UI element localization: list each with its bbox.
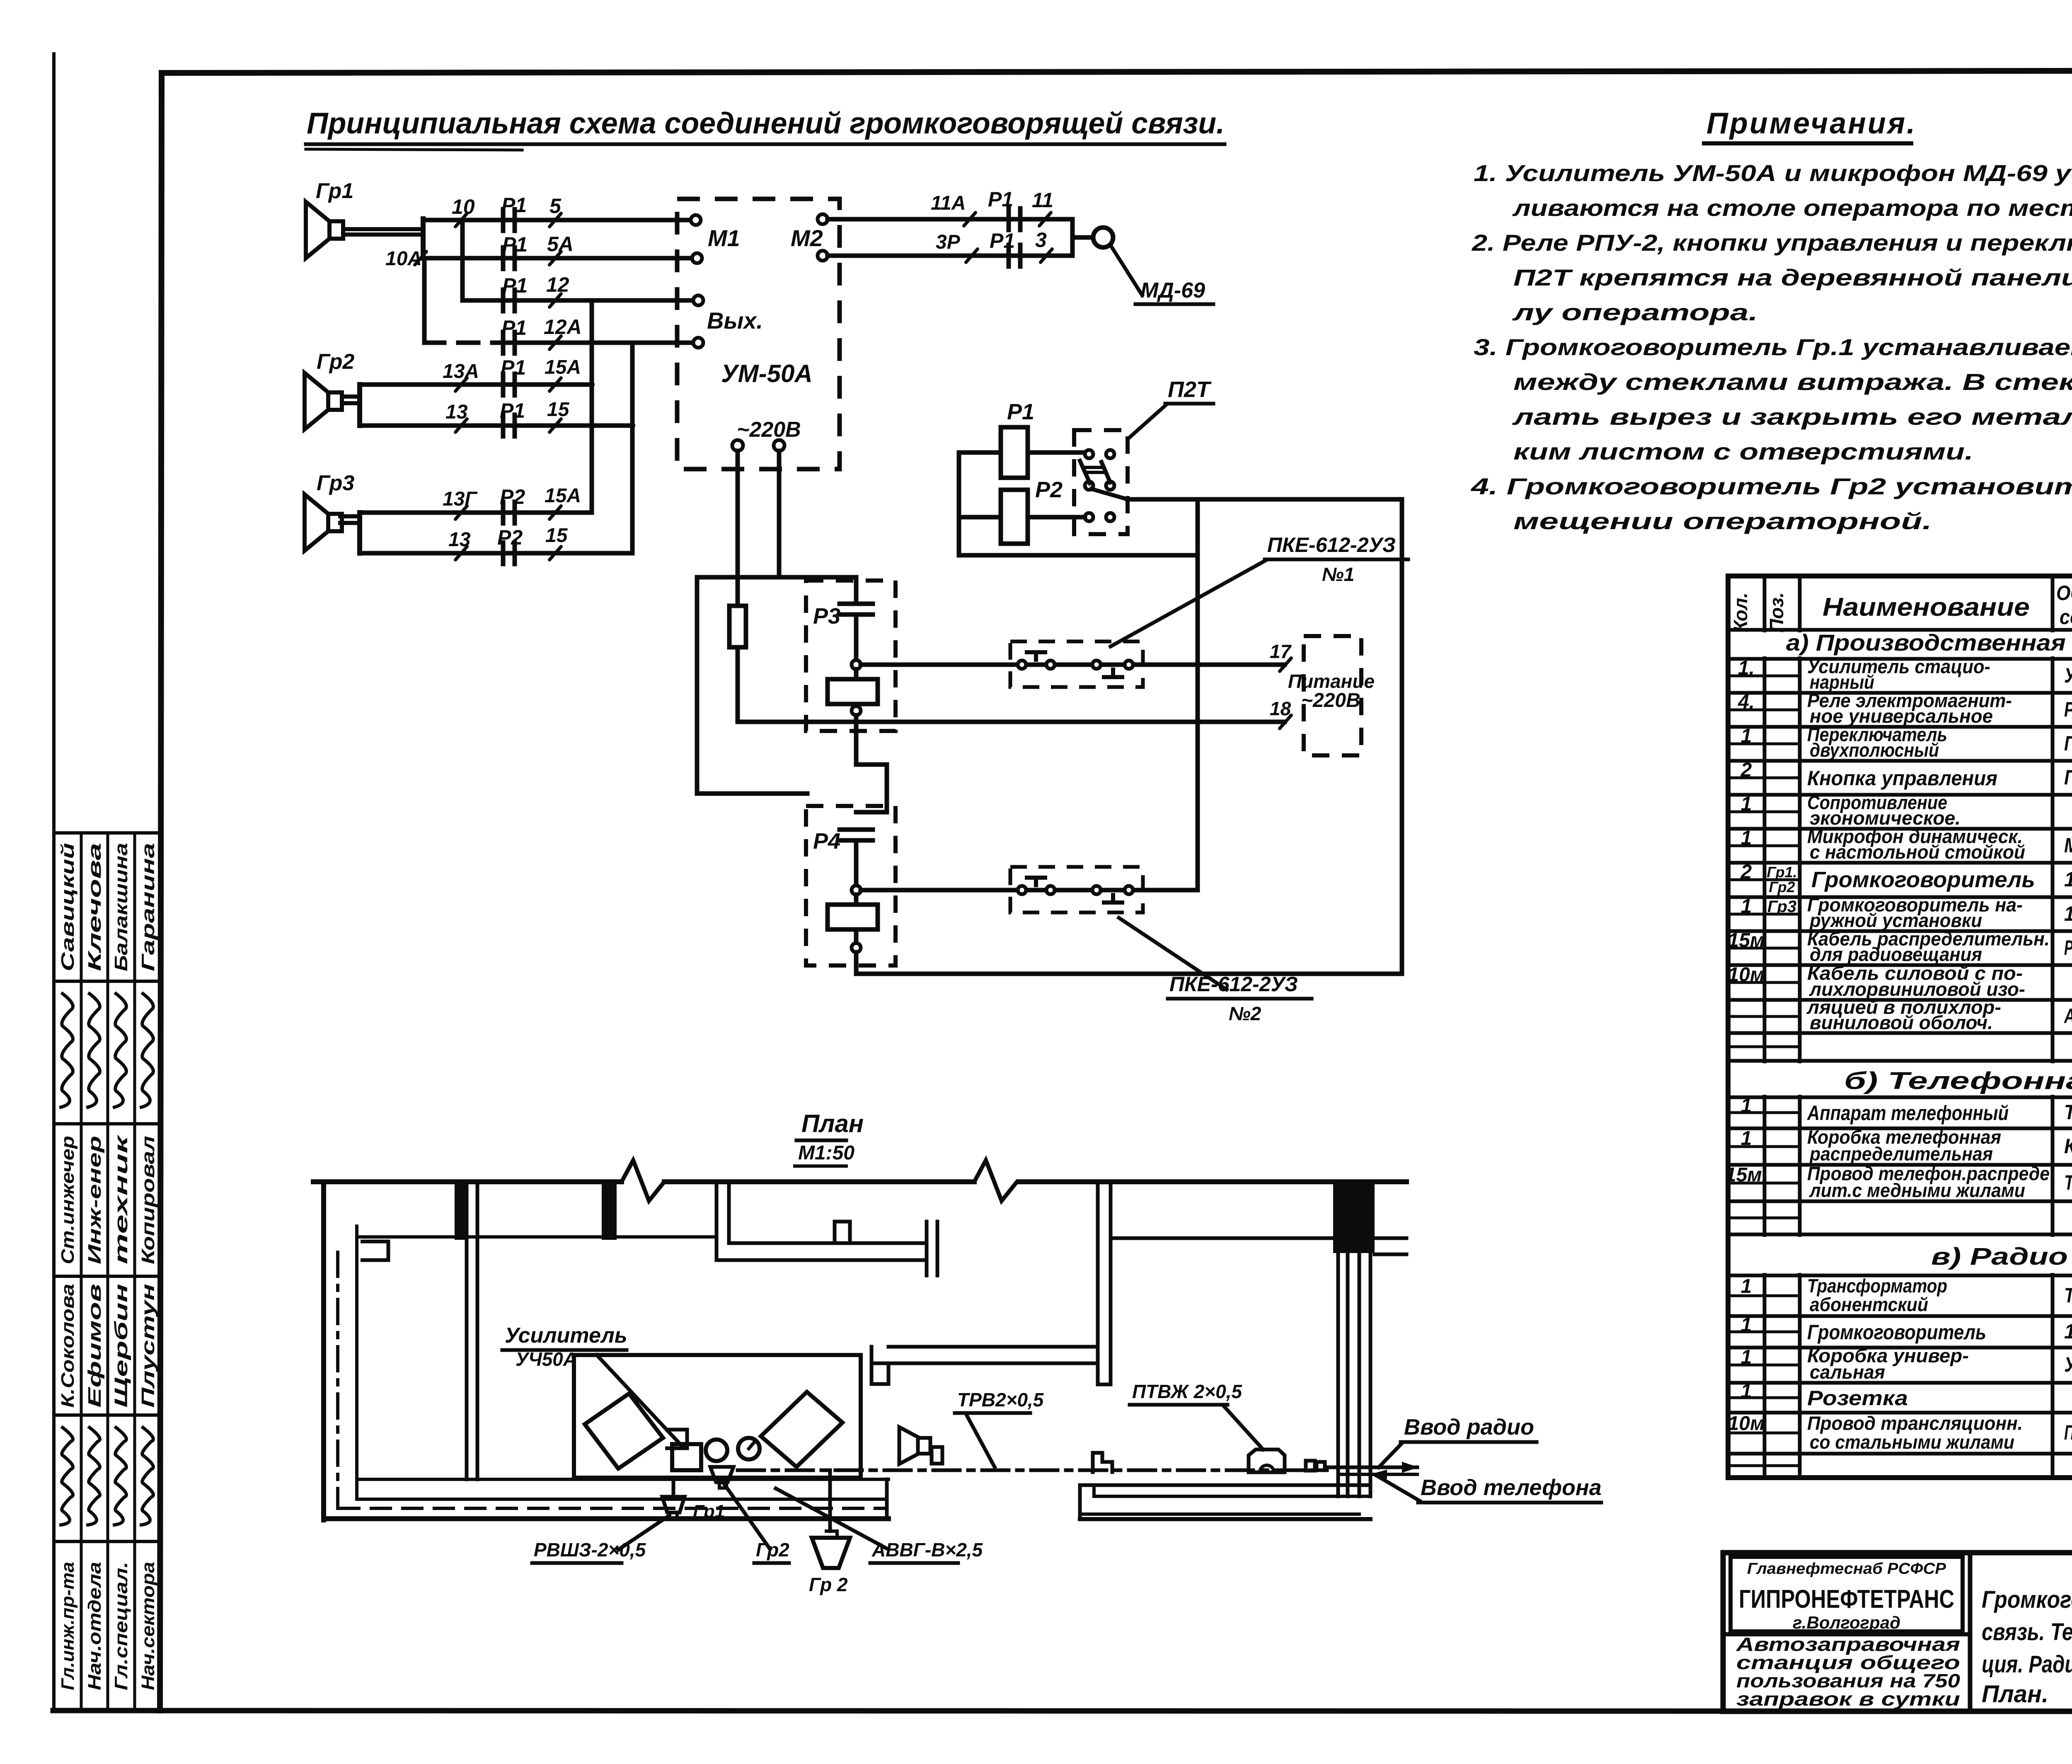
svg-text:сортамент: сортамент xyxy=(2060,605,2072,629)
svg-text:РПУ-2-66-2223: РПУ-2-66-2223 xyxy=(2064,698,2072,721)
svg-text:Нач.сектора: Нач.сектора xyxy=(138,1562,158,1690)
svg-text:Гр3: Гр3 xyxy=(317,471,354,495)
svg-text:лу оператора.: лу оператора. xyxy=(1512,299,1758,325)
svg-text:Громкоговоритель: Громкоговоритель xyxy=(1807,1321,1986,1344)
svg-text:ТАН-70: ТАН-70 xyxy=(2064,1101,2072,1124)
svg-text:13: 13 xyxy=(448,529,471,551)
svg-text:Ввод телефона: Ввод телефона xyxy=(1421,1475,1602,1500)
svg-text:13: 13 xyxy=(445,401,468,423)
svg-text:КР-10×2: КР-10×2 xyxy=(2064,1135,2072,1158)
svg-text:техник: техник xyxy=(111,1134,131,1264)
svg-text:Клечова: Клечова xyxy=(85,843,105,971)
svg-text:2: 2 xyxy=(1740,759,1752,781)
svg-text:Кнопка управления: Кнопка управления xyxy=(1807,767,1997,790)
svg-text:12: 12 xyxy=(546,273,569,296)
svg-text:Питание: Питание xyxy=(1288,670,1375,692)
svg-text:К.Соколова: К.Соколова xyxy=(58,1284,78,1408)
svg-text:Поз.: Поз. xyxy=(1766,592,1787,632)
svg-text:ПТВЖ: ПТВЖ xyxy=(2064,1421,2072,1444)
svg-text:4.: 4. xyxy=(1738,691,1755,713)
svg-text:П2Т крепятся на деревянной пан: П2Т крепятся на деревянной панели к сто- xyxy=(1513,264,2072,290)
svg-text:ТРВ: ТРВ xyxy=(2064,1171,2072,1194)
svg-text:Гл.инж.пр-та: Гл.инж.пр-та xyxy=(58,1562,78,1690)
svg-text:П2Т: П2Т xyxy=(1168,377,1212,402)
svg-text:13А: 13А xyxy=(443,361,479,382)
svg-text:Гр1: Гр1 xyxy=(316,179,353,203)
svg-text:2. Реле РПУ-2, кнопки управлен: 2. Реле РПУ-2, кнопки управления и перек… xyxy=(1472,230,2072,256)
svg-text:Гр 2: Гр 2 xyxy=(809,1574,848,1595)
svg-text:ПТВЖ 2×0,5: ПТВЖ 2×0,5 xyxy=(1132,1381,1243,1402)
svg-text:УМ-50А: УМ-50А xyxy=(721,360,813,387)
svg-text:1.: 1. xyxy=(1738,657,1755,679)
svg-text:ГИПРОНЕФТЕТРАНС: ГИПРОНЕФТЕТРАНС xyxy=(1739,1585,1954,1614)
svg-text:Гр2: Гр2 xyxy=(1769,878,1795,895)
svg-text:15м.: 15м. xyxy=(1725,1164,1767,1186)
svg-text:с настольной стойкой: с настольной стойкой xyxy=(1810,841,2025,863)
svg-text:15м: 15м xyxy=(1728,929,1765,951)
svg-text:Р1: Р1 xyxy=(500,399,525,422)
svg-text:М1:50: М1:50 xyxy=(798,1142,854,1164)
svg-text:УМ-50А: УМ-50А xyxy=(2064,664,2072,687)
svg-text:ким листом с отверстиями.: ким листом с отверстиями. xyxy=(1513,438,1973,465)
svg-text:со стальными жилами: со стальными жилами xyxy=(1810,1431,2014,1453)
svg-text:4. Громкоговоритель Гр2 устано: 4. Громкоговоритель Гр2 установить в по- xyxy=(1471,473,2072,499)
svg-text:Гр1: Гр1 xyxy=(693,1501,725,1522)
svg-text:1ГД-0,5: 1ГД-0,5 xyxy=(2064,868,2072,891)
svg-text:Усилитель: Усилитель xyxy=(505,1324,627,1348)
svg-text:Р1: Р1 xyxy=(501,356,526,379)
svg-text:М2: М2 xyxy=(791,225,823,251)
svg-text:Р1: Р1 xyxy=(988,188,1013,211)
svg-text:Р2: Р2 xyxy=(497,526,523,549)
svg-text:Р1: Р1 xyxy=(1007,399,1034,424)
svg-text:10ГРД-5: 10ГРД-5 xyxy=(2064,902,2072,925)
svg-text:ливаются на столе оператора по: ливаются на столе оператора по месту. xyxy=(1512,195,2072,221)
svg-text:РВШЭ: РВШЭ xyxy=(2064,936,2072,959)
svg-text:Р1: Р1 xyxy=(502,233,528,256)
svg-text:АВВГ: АВВГ xyxy=(2064,1004,2072,1028)
svg-text:Громкоговоритель: Громкоговоритель xyxy=(1811,867,2035,892)
svg-text:распределительная: распределительная xyxy=(1809,1143,1993,1164)
svg-text:12А: 12А xyxy=(544,315,582,339)
svg-text:10А: 10А xyxy=(385,248,422,270)
svg-text:Копировал: Копировал xyxy=(138,1136,158,1264)
svg-text:ПКЕ-612-2УЗ: ПКЕ-612-2УЗ xyxy=(1267,533,1396,557)
svg-text:1. Усилитель УМ-50А и микрофон: 1. Усилитель УМ-50А и микрофон МД-69 уст… xyxy=(1474,160,2072,186)
svg-text:Р1: Р1 xyxy=(501,194,527,217)
svg-text:1: 1 xyxy=(1741,1095,1752,1117)
svg-text:1: 1 xyxy=(1741,1128,1752,1149)
svg-text:1: 1 xyxy=(1741,1314,1752,1336)
svg-text:~220В: ~220В xyxy=(737,418,801,442)
svg-text:УЧ50А: УЧ50А xyxy=(516,1348,577,1370)
svg-text:ТРВ2×0,5: ТРВ2×0,5 xyxy=(957,1389,1044,1411)
svg-text:15: 15 xyxy=(545,525,568,547)
svg-text:1: 1 xyxy=(1741,725,1752,747)
svg-text:Савицкий: Савицкий xyxy=(58,843,78,971)
svg-text:1ГД-0,5: 1ГД-0,5 xyxy=(2064,1320,2072,1343)
svg-text:ПКЕ 612-2УЗ: ПКЕ 612-2УЗ xyxy=(2064,766,2072,789)
svg-text:3. Громкоговоритель Гр.1 устан: 3. Громкоговоритель Гр.1 устанавливается xyxy=(1474,334,2072,360)
svg-text:Р2: Р2 xyxy=(500,485,525,508)
svg-text:План.: План. xyxy=(1982,1681,2048,1708)
svg-text:Р4: Р4 xyxy=(813,829,840,854)
svg-text:Гр3: Гр3 xyxy=(1767,898,1796,916)
svg-text:5: 5 xyxy=(549,194,562,218)
svg-text:1: 1 xyxy=(1741,1346,1752,1368)
svg-text:МД-69: МД-69 xyxy=(1140,278,1205,302)
svg-text:ПКЕ-612-2УЗ: ПКЕ-612-2УЗ xyxy=(1169,973,1298,996)
svg-text:УК-2П: УК-2П xyxy=(2064,1353,2072,1376)
svg-text:Принципиальная схема соедине: Принципиальная схема соединений громкого… xyxy=(307,107,1225,140)
svg-text:связь. Телефониза-: связь. Телефониза- xyxy=(1982,1619,2072,1645)
svg-text:Балакшина: Балакшина xyxy=(111,843,131,971)
svg-text:Аппарат телефонный: Аппарат телефонный xyxy=(1806,1101,2009,1125)
svg-text:б) Телефонная связь: б) Телефонная связь xyxy=(1844,1067,2072,1094)
svg-text:10м: 10м xyxy=(1728,1413,1765,1435)
svg-text:10м: 10м xyxy=(1728,964,1765,986)
svg-text:Нач.отдела: Нач.отдела xyxy=(85,1562,105,1690)
svg-text:виниловой оболоч.: виниловой оболоч. xyxy=(1810,1011,1993,1033)
svg-text:заправок в сутки: заправок в сутки xyxy=(1736,1688,1960,1710)
svg-text:Инж-енер: Инж-енер xyxy=(85,1136,105,1264)
svg-text:Провод трансляционн.: Провод трансляционн. xyxy=(1807,1413,2023,1434)
svg-text:Ввод радио: Ввод радио xyxy=(1404,1415,1534,1440)
svg-text:Вых.: Вых. xyxy=(707,307,763,334)
svg-text:15А: 15А xyxy=(545,356,581,378)
svg-text:Примечания.: Примечания. xyxy=(1706,107,1917,140)
svg-text:10: 10 xyxy=(452,195,475,218)
svg-text:Обозначение: Обозначение xyxy=(2056,581,2072,605)
svg-text:Кол.: Кол. xyxy=(1730,593,1751,632)
svg-text:15: 15 xyxy=(547,399,570,421)
svg-text:г.Волгоград: г.Волгоград xyxy=(1793,1613,1900,1632)
svg-text:абонентский: абонентский xyxy=(1810,1294,1928,1315)
svg-text:11: 11 xyxy=(1032,189,1053,212)
svg-text:Р1: Р1 xyxy=(502,274,528,297)
svg-text:а) Производственная громкогово: а) Производственная громкоговорящая связ… xyxy=(1786,629,2072,656)
svg-text:двухполюсный: двухполюсный xyxy=(1810,739,1939,761)
svg-text:П2Т: П2Т xyxy=(2064,732,2072,755)
svg-text:Плустун: Плустун xyxy=(138,1284,158,1408)
svg-text:Р1: Р1 xyxy=(501,316,527,339)
svg-text:в) Радио: в) Радио xyxy=(1931,1243,2068,1270)
svg-text:№2: №2 xyxy=(1229,1003,1261,1024)
svg-text:План: План xyxy=(801,1110,864,1137)
svg-text:1: 1 xyxy=(1741,1275,1752,1297)
svg-text:Наименование: Наименование xyxy=(1823,593,2030,622)
svg-text:мещении операторной.: мещении операторной. xyxy=(1513,508,1932,534)
svg-text:МД-69: МД-69 xyxy=(2064,834,2072,857)
svg-text:Громкоговорящия: Громкоговорящия xyxy=(1982,1586,2072,1613)
svg-text:Р2: Р2 xyxy=(1035,477,1063,502)
svg-text:Розетка: Розетка xyxy=(1807,1387,1908,1410)
svg-text:М1: М1 xyxy=(708,225,740,251)
svg-text:№1: №1 xyxy=(1322,564,1354,585)
svg-text:Гаранина: Гаранина xyxy=(138,843,158,971)
svg-text:лать вырез и закрыть его м: лать вырез и закрыть его металличес- xyxy=(1512,404,2072,430)
svg-text:Главнефтеснаб РСФСР: Главнефтеснаб РСФСР xyxy=(1747,1560,1946,1578)
svg-text:Р3: Р3 xyxy=(813,604,840,629)
svg-text:Ефимов: Ефимов xyxy=(85,1284,105,1408)
svg-text:Ст.инжечер: Ст.инжечер xyxy=(58,1136,78,1264)
svg-text:~220В: ~220В xyxy=(1301,690,1360,711)
svg-text:2: 2 xyxy=(1740,861,1752,883)
svg-text:11А: 11А xyxy=(931,192,966,214)
svg-text:ция. Радиофикация.: ция. Радиофикация. xyxy=(1982,1651,2072,1678)
svg-text:1: 1 xyxy=(1741,793,1752,815)
svg-text:3Р: 3Р xyxy=(936,231,961,253)
svg-text:1: 1 xyxy=(1741,827,1752,849)
svg-text:ТАУ-5СМ: ТАУ-5СМ xyxy=(2064,1284,2072,1307)
svg-text:Р1: Р1 xyxy=(990,229,1015,252)
svg-text:лит.с медными жилами: лит.с медными жилами xyxy=(1809,1179,2025,1201)
svg-text:1: 1 xyxy=(1741,1380,1752,1402)
svg-text:между стеклами витража. В с: между стеклами витража. В стекле сде- xyxy=(1513,369,2072,395)
svg-text:3: 3 xyxy=(1035,228,1047,252)
svg-text:Щербин: Щербин xyxy=(111,1284,131,1408)
svg-text:1: 1 xyxy=(1741,895,1752,917)
svg-text:АВВГ-В×2,5: АВВГ-В×2,5 xyxy=(871,1539,983,1561)
svg-text:15А: 15А xyxy=(545,485,581,507)
svg-text:Гр2: Гр2 xyxy=(317,350,354,374)
svg-text:Гр2: Гр2 xyxy=(756,1539,789,1561)
svg-text:сальная: сальная xyxy=(1810,1361,1885,1383)
svg-text:18: 18 xyxy=(1270,698,1291,719)
svg-text:5А: 5А xyxy=(547,232,574,256)
svg-text:13Г: 13Г xyxy=(443,488,478,510)
svg-text:Гл.специал.: Гл.специал. xyxy=(111,1562,131,1690)
svg-text:Гр1.: Гр1. xyxy=(1767,864,1797,881)
